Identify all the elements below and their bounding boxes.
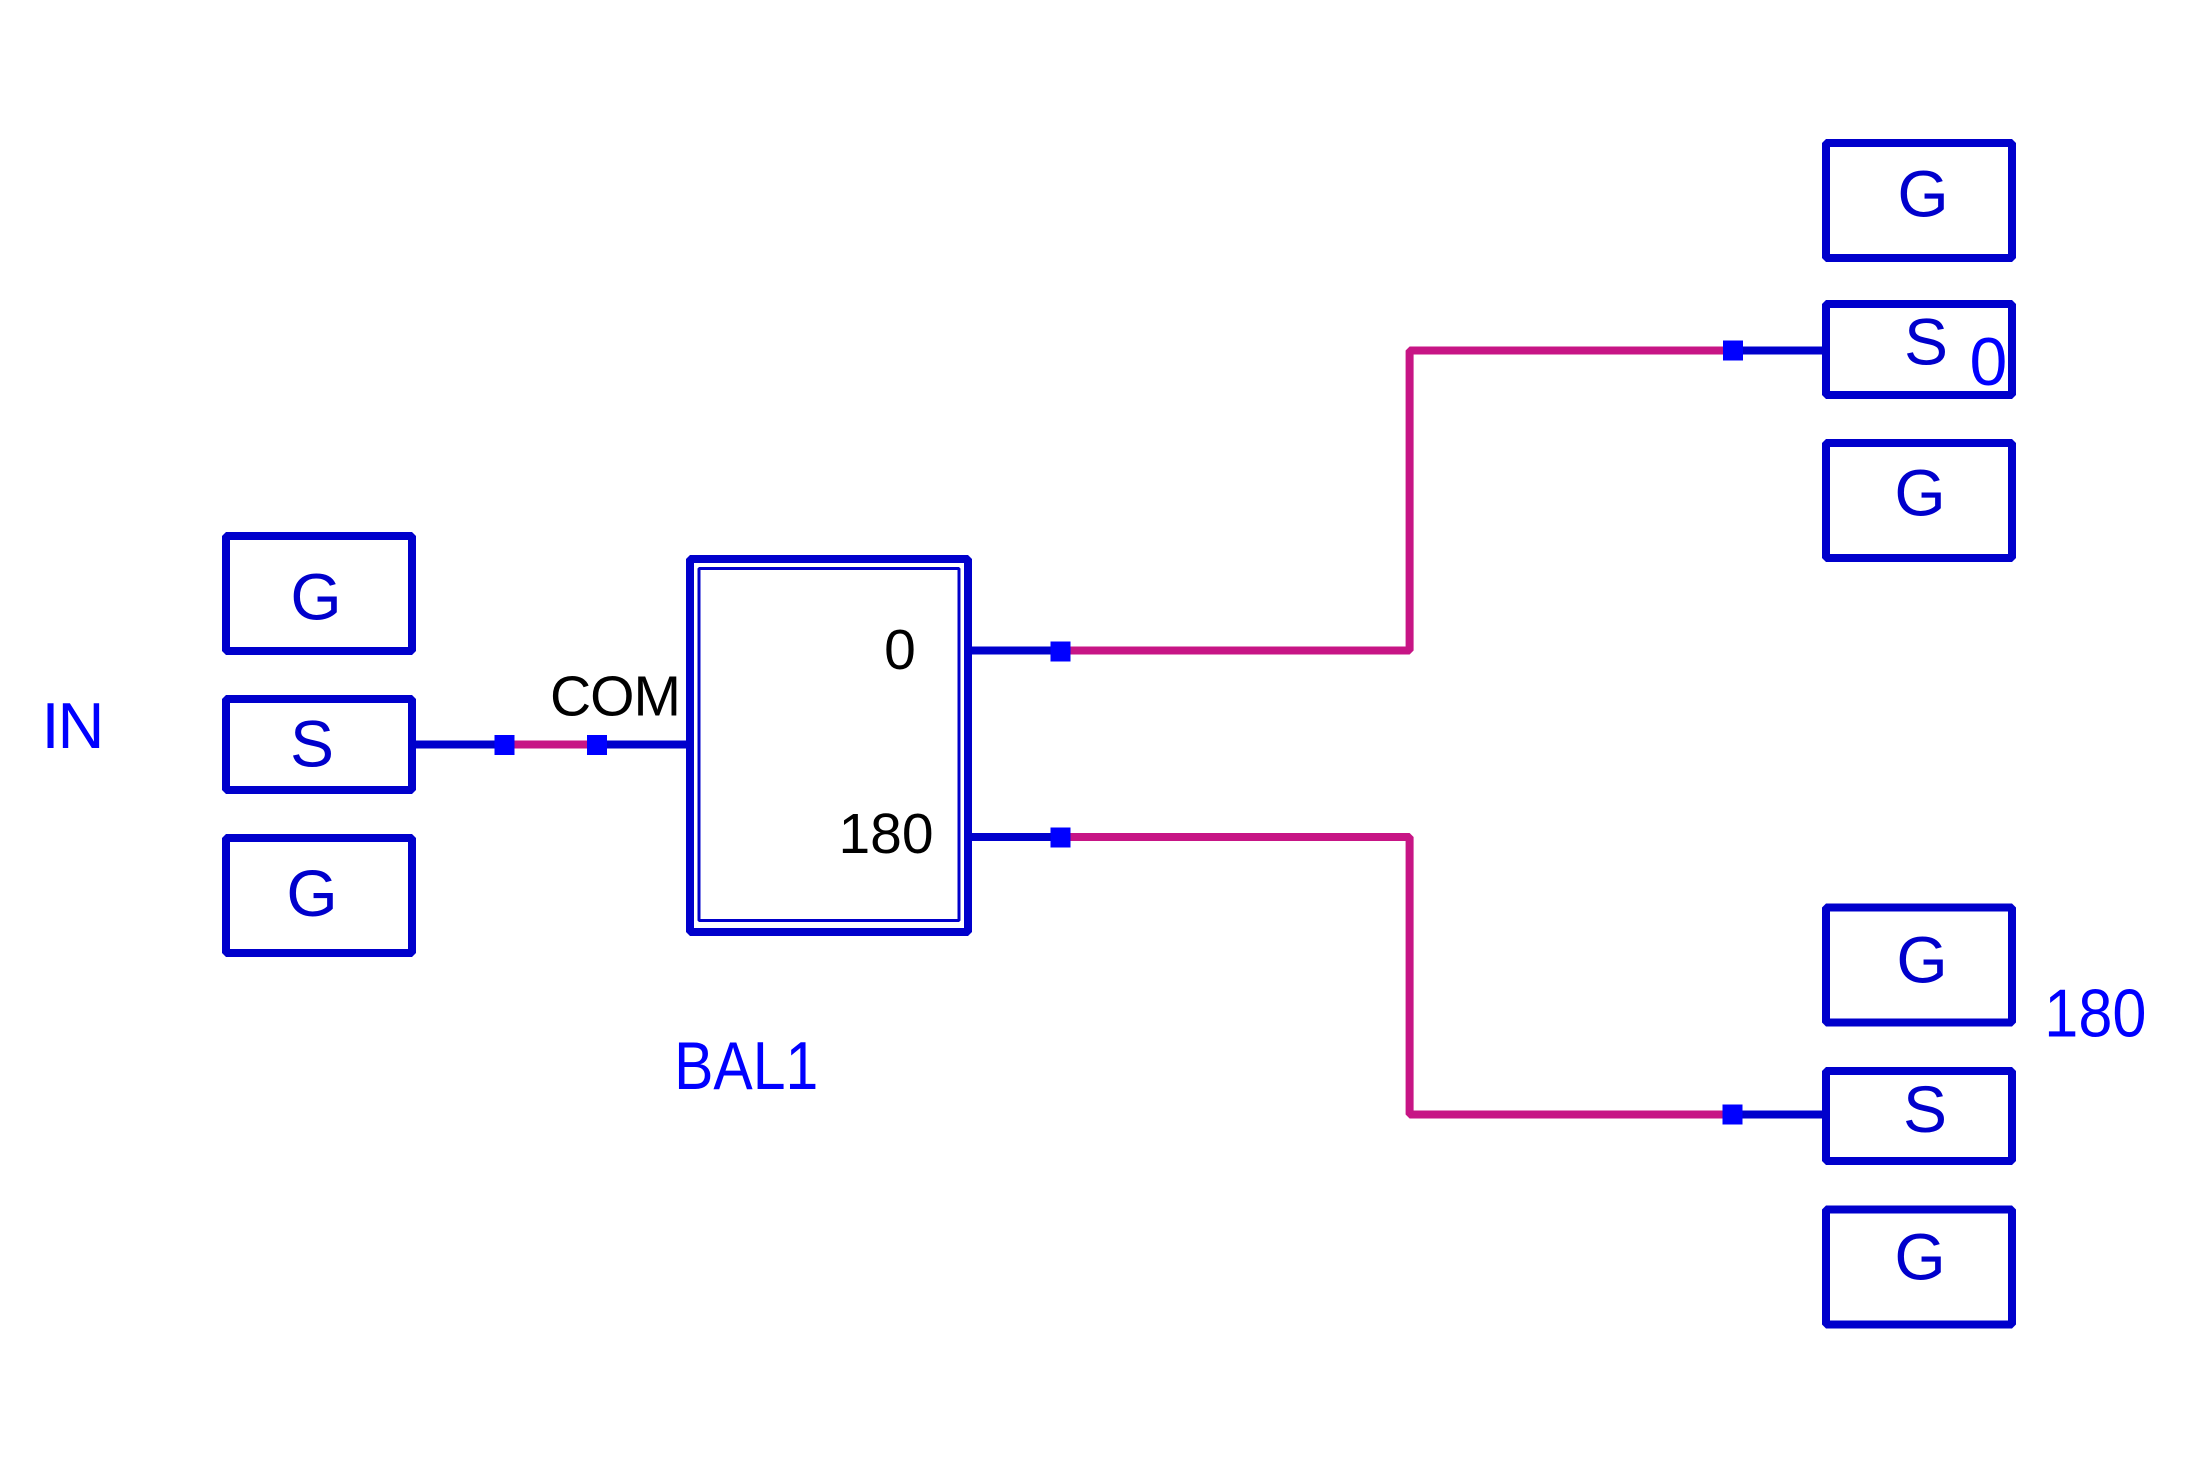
wire input net from S pad to balun COM [416, 741, 686, 749]
wire magenta 0-deg net polyline [1061, 351, 1734, 651]
svg-text:COM: COM [550, 665, 680, 729]
wire 0-deg output stub from balun [972, 647, 1061, 655]
balun BAL1 outer box [690, 559, 968, 932]
wire blue stub into 0-deg S pad [1733, 347, 1822, 355]
svg-text:S: S [1903, 1072, 1947, 1146]
wire magenta 180-deg net polyline [1061, 837, 1733, 1115]
svg-text:S: S [1904, 305, 1948, 379]
node junction square J5 [1051, 828, 1071, 848]
svg-text:0: 0 [1970, 324, 2008, 400]
pad G left-bottom [226, 838, 412, 953]
wire 180-deg output stub from balun [972, 833, 1061, 841]
node junction square J1 [495, 735, 515, 755]
pad G right 180deg group top [1826, 908, 2012, 1023]
svg-text:180: 180 [838, 802, 933, 866]
wire magenta highlighted segment of input net [504, 741, 597, 749]
svg-text:180: 180 [2044, 974, 2146, 1051]
balun BAL1 inner box [699, 569, 959, 921]
node junction square J6 [1723, 1105, 1743, 1125]
node junction square J2 [587, 735, 607, 755]
svg-text:G: G [290, 560, 341, 634]
svg-text:G: G [286, 856, 337, 930]
svg-text:G: G [1897, 157, 1948, 231]
pad G right 180deg group bottom [1826, 1210, 2012, 1325]
svg-text:G: G [1894, 1220, 1945, 1294]
node junction square J4 [1723, 341, 1743, 361]
pad S left (input) [226, 699, 412, 790]
pad G right-top group 0deg [1826, 143, 2012, 258]
svg-text:G: G [1894, 456, 1945, 530]
pad S right 180deg [1826, 1071, 2012, 1161]
svg-text:0: 0 [884, 618, 916, 682]
pad S right 0deg [1826, 304, 2012, 395]
node junction square J3 [1051, 642, 1071, 662]
pad G left-top [226, 536, 412, 651]
svg-text:S: S [290, 707, 334, 781]
wire blue stub into 180-deg S pad [1733, 1111, 1823, 1119]
pad G right-mid 0deg group [1826, 443, 2012, 558]
svg-text:IN: IN [42, 689, 103, 762]
svg-text:BAL1: BAL1 [674, 1028, 818, 1104]
svg-text:G: G [1896, 923, 1947, 997]
